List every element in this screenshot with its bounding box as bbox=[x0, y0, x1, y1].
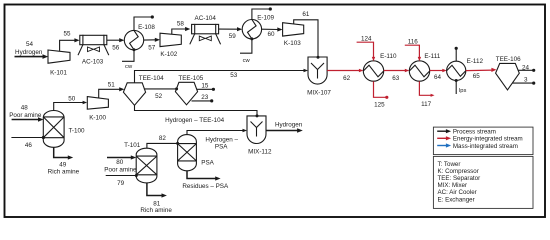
svg-text:58: 58 bbox=[177, 20, 185, 27]
svg-text:E-110: E-110 bbox=[380, 53, 397, 60]
svg-text:K-100: K-100 bbox=[89, 114, 106, 121]
air cooler AC-104 bbox=[190, 15, 221, 45]
svg-text:55: 55 bbox=[63, 30, 71, 37]
adsorber PSA bbox=[178, 135, 215, 171]
svg-text:65: 65 bbox=[473, 73, 481, 80]
wire 63 bbox=[384, 69, 410, 83]
wire 65 bbox=[466, 68, 497, 80]
svg-text:MIX-107: MIX-107 bbox=[307, 90, 331, 97]
svg-text:Process stream: Process stream bbox=[453, 129, 496, 136]
svg-text:54: 54 bbox=[26, 41, 34, 48]
svg-text:51: 51 bbox=[108, 81, 116, 88]
wire 52 bbox=[144, 87, 178, 100]
svg-text:MIX-112: MIX-112 bbox=[248, 149, 272, 156]
wire 51 bbox=[99, 81, 125, 98]
legend arrows box bbox=[433, 127, 533, 155]
svg-text:K-102: K-102 bbox=[160, 51, 177, 58]
stream 79 bbox=[106, 174, 138, 187]
wire 24 bbox=[518, 65, 535, 72]
svg-text:Poor amine: Poor amine bbox=[9, 112, 42, 119]
legend key box bbox=[433, 156, 533, 208]
svg-text:PSA: PSA bbox=[201, 159, 214, 166]
compressor K-102 bbox=[160, 33, 181, 58]
svg-text:lps: lps bbox=[459, 88, 467, 94]
wire 58 bbox=[172, 20, 191, 34]
wire lps E-112 bottom bbox=[455, 79, 467, 94]
svg-text:TEE: Separator: TEE: Separator bbox=[438, 175, 481, 182]
svg-text:46: 46 bbox=[25, 142, 33, 149]
splitter TEE-104 bbox=[123, 75, 164, 105]
wire 55 bbox=[60, 30, 80, 51]
wire vent E-112 top bbox=[455, 47, 458, 62]
svg-text:79: 79 bbox=[117, 180, 125, 187]
splitter TEE-105 bbox=[175, 75, 203, 105]
wire 56 bbox=[107, 38, 125, 51]
wire cw outlet E-109 bbox=[252, 7, 272, 19]
svg-text:62: 62 bbox=[343, 75, 351, 82]
svg-text:125: 125 bbox=[374, 102, 385, 109]
stream 81 Rich amine bbox=[140, 183, 172, 214]
svg-text:117: 117 bbox=[421, 101, 432, 108]
svg-text:Mass-integrated stream: Mass-integrated stream bbox=[453, 143, 518, 150]
svg-text:T-100: T-100 bbox=[68, 127, 85, 134]
wire 60 bbox=[262, 27, 283, 38]
svg-text:T: Tower: T: Tower bbox=[438, 161, 461, 168]
svg-text:23: 23 bbox=[201, 94, 209, 101]
wire 82 bbox=[147, 135, 179, 148]
compressor K-103 bbox=[283, 23, 304, 47]
wire Hydrogen - TEE-104 bbox=[135, 105, 259, 124]
svg-text:Hydrogen – TEE-104: Hydrogen – TEE-104 bbox=[165, 117, 225, 124]
wire 117 bbox=[419, 81, 434, 108]
svg-text:cw: cw bbox=[125, 64, 133, 70]
wire 57 bbox=[144, 38, 160, 52]
svg-text:116: 116 bbox=[408, 38, 419, 45]
wire 50 bbox=[54, 96, 87, 111]
svg-text:E-112: E-112 bbox=[467, 58, 484, 65]
svg-text:K-101: K-101 bbox=[50, 70, 67, 77]
svg-text:60: 60 bbox=[267, 31, 275, 38]
svg-text:3: 3 bbox=[524, 77, 528, 84]
wire 124 bbox=[357, 35, 376, 61]
svg-text:49: 49 bbox=[59, 161, 67, 168]
svg-text:TEE-106: TEE-106 bbox=[496, 56, 521, 63]
exchanger E-110 bbox=[363, 53, 397, 81]
svg-text:Energy-integrated stream: Energy-integrated stream bbox=[453, 136, 523, 143]
wire 23 bbox=[192, 94, 214, 102]
svg-text:cw: cw bbox=[243, 58, 251, 64]
svg-text:E: Exchanger: E: Exchanger bbox=[438, 196, 475, 203]
svg-text:AC-104: AC-104 bbox=[195, 15, 217, 22]
mixer MIX-112 bbox=[247, 116, 272, 156]
stream 46 bbox=[11, 136, 45, 149]
exchanger E-111 bbox=[409, 53, 440, 81]
svg-text:MIX: Mixer: MIX: Mixer bbox=[438, 182, 468, 189]
svg-text:E-109: E-109 bbox=[257, 14, 274, 21]
wire 61 bbox=[294, 11, 320, 59]
compressor K-101 bbox=[48, 50, 70, 77]
air cooler AC-103 bbox=[78, 35, 109, 66]
svg-text:TEE-105: TEE-105 bbox=[178, 75, 203, 82]
tower T-100 bbox=[43, 111, 85, 148]
svg-text:T-101: T-101 bbox=[124, 142, 141, 149]
svg-text:57: 57 bbox=[148, 44, 156, 51]
svg-text:80: 80 bbox=[116, 159, 124, 166]
wire 15 bbox=[197, 82, 215, 91]
svg-text:82: 82 bbox=[159, 135, 167, 142]
exchanger E-112 bbox=[447, 58, 484, 80]
stream 80 Poor amine bbox=[104, 155, 137, 173]
stream 48 Poor amine bbox=[9, 105, 43, 122]
svg-text:Residues – PSA: Residues – PSA bbox=[182, 183, 229, 190]
svg-text:15: 15 bbox=[201, 82, 209, 89]
svg-text:K: Compressor: K: Compressor bbox=[438, 168, 479, 175]
svg-text:Rich amine: Rich amine bbox=[140, 207, 172, 214]
svg-text:Hydrogen: Hydrogen bbox=[275, 122, 303, 129]
svg-text:PSA: PSA bbox=[215, 144, 228, 151]
stream 49 Rich amine bbox=[48, 147, 80, 175]
svg-text:64: 64 bbox=[434, 74, 442, 81]
wire 64 bbox=[430, 69, 447, 81]
wire 116 bbox=[405, 38, 421, 61]
svg-text:63: 63 bbox=[392, 75, 400, 82]
svg-text:E-111: E-111 bbox=[424, 53, 440, 60]
svg-text:50: 50 bbox=[68, 96, 76, 103]
wire 62 bbox=[327, 69, 363, 83]
wire 125 bbox=[374, 81, 389, 108]
wire cw inlet E-109 bbox=[240, 37, 253, 63]
svg-text:K-103: K-103 bbox=[284, 40, 301, 47]
splitter TEE-106 bbox=[496, 56, 522, 90]
svg-text:61: 61 bbox=[302, 11, 310, 18]
wire Hydrogen - PSA bbox=[187, 129, 247, 151]
svg-text:52: 52 bbox=[155, 93, 163, 100]
svg-text:48: 48 bbox=[21, 105, 29, 112]
wire cw inlet E-108 bbox=[122, 48, 136, 70]
exchanger E-108 bbox=[124, 24, 155, 50]
stream Residues - PSA bbox=[182, 171, 229, 190]
wire 59 bbox=[219, 27, 243, 40]
svg-text:AC: Air Cooler: AC: Air Cooler bbox=[438, 189, 477, 196]
svg-text:Poor amine: Poor amine bbox=[104, 166, 137, 173]
svg-text:E-108: E-108 bbox=[138, 24, 155, 31]
svg-text:24: 24 bbox=[522, 65, 530, 72]
svg-text:AC-103: AC-103 bbox=[82, 59, 104, 66]
mixer MIX-107 bbox=[307, 57, 331, 97]
wire cw outlet E-108 bbox=[134, 15, 154, 30]
svg-text:Rich amine: Rich amine bbox=[48, 169, 80, 176]
stream 54 Hydrogen feed bbox=[15, 41, 49, 59]
compressor K-100 bbox=[87, 97, 108, 122]
svg-text:124: 124 bbox=[361, 35, 372, 42]
tower T-101 bbox=[124, 142, 157, 183]
svg-text:59: 59 bbox=[229, 33, 237, 40]
svg-text:53: 53 bbox=[230, 72, 238, 79]
svg-text:Hydrogen: Hydrogen bbox=[15, 49, 43, 56]
stream Hydrogen product bbox=[266, 122, 303, 133]
exchanger E-109 bbox=[242, 14, 274, 39]
svg-text:56: 56 bbox=[112, 44, 120, 51]
svg-text:TEE-104: TEE-104 bbox=[139, 75, 164, 82]
wire 53 bbox=[135, 69, 309, 83]
wire 3 bbox=[512, 77, 535, 85]
